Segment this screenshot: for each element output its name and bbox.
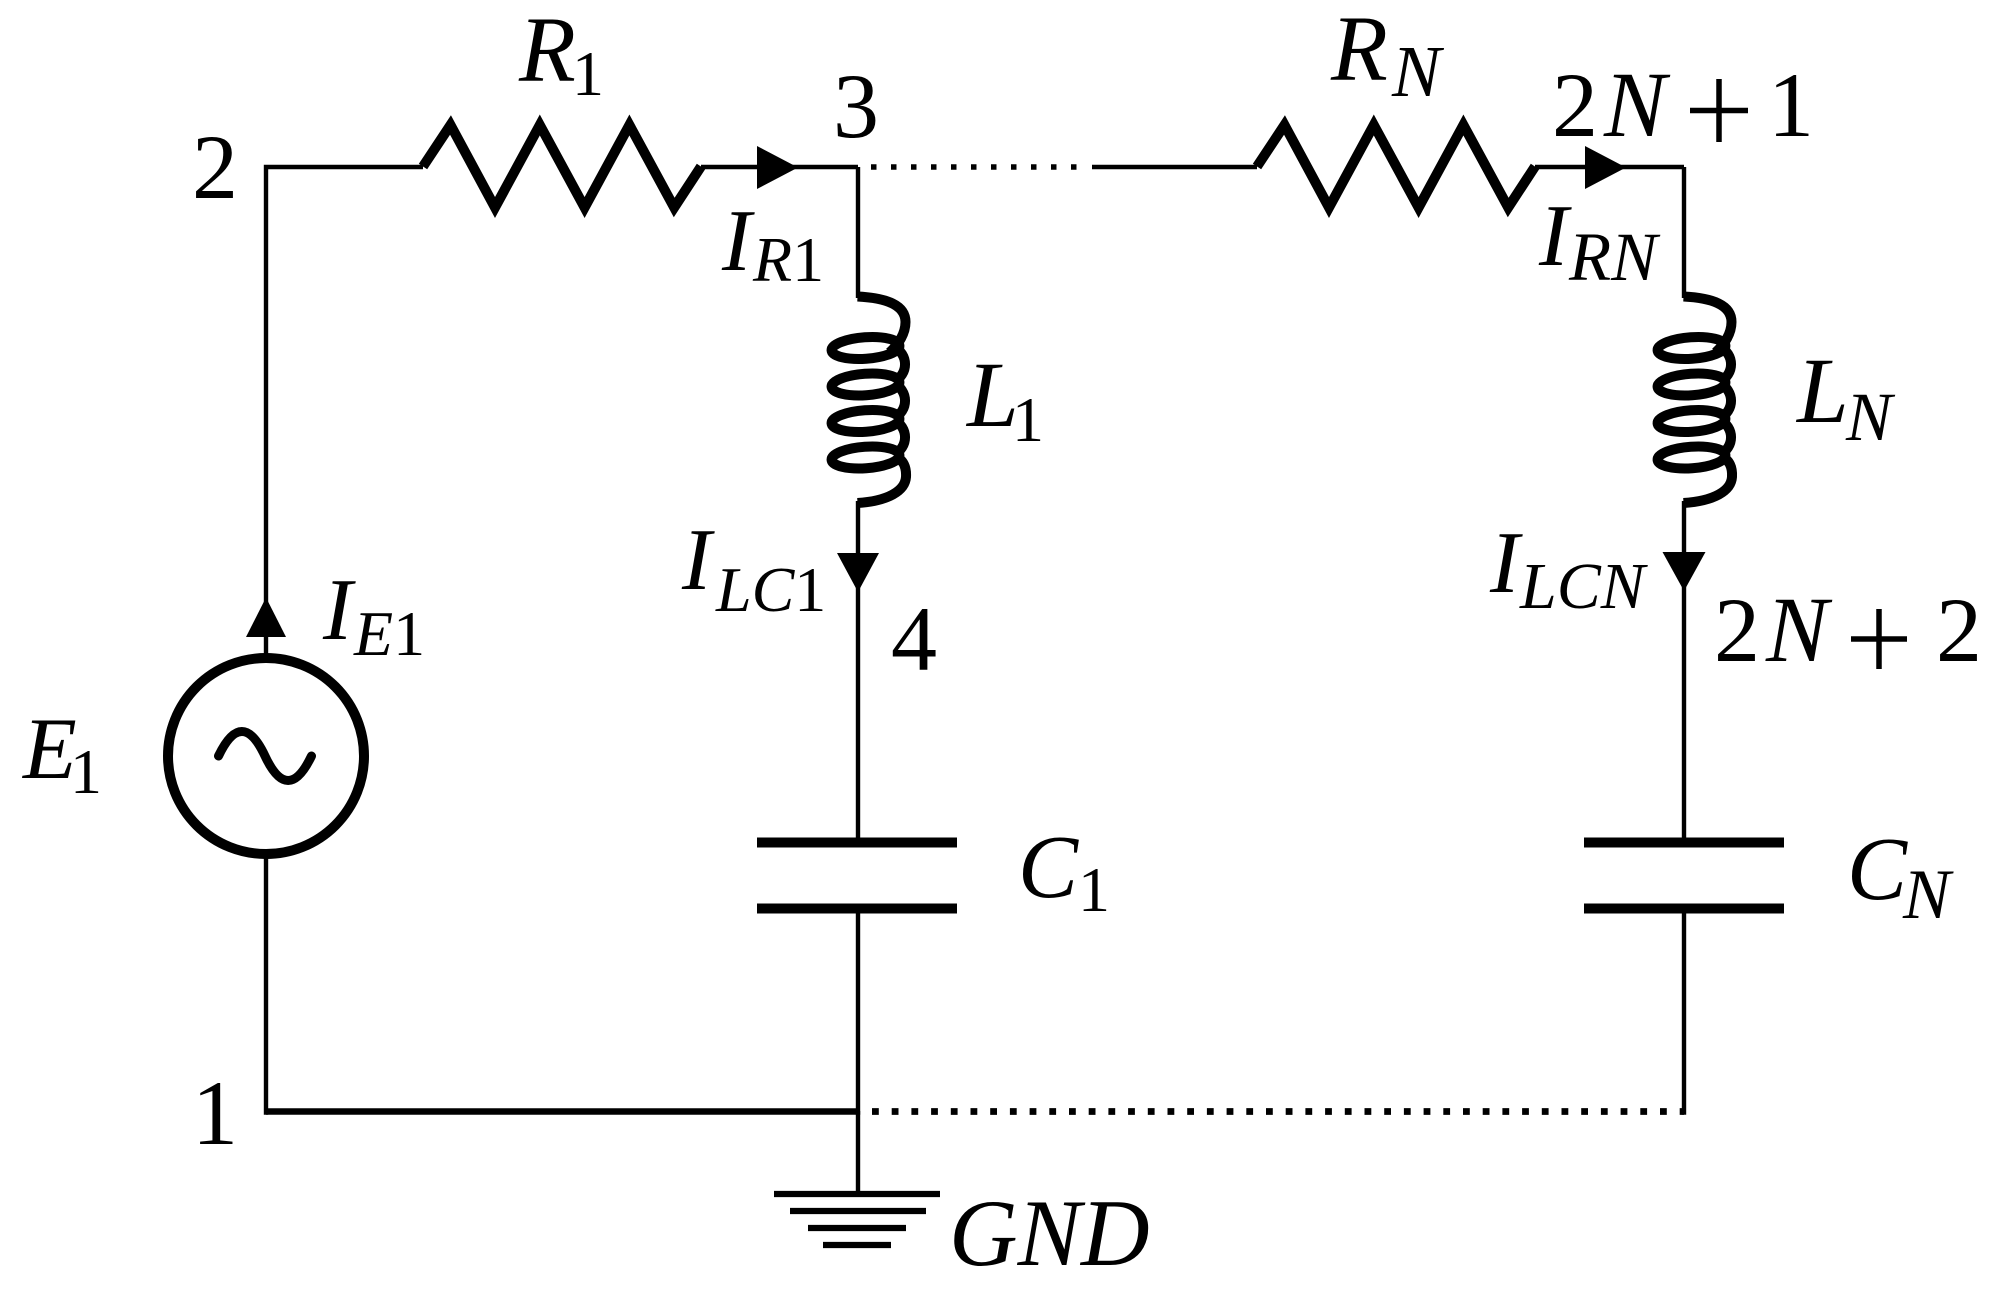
svg-text:E: E bbox=[21, 701, 77, 798]
svg-text:3: 3 bbox=[833, 55, 879, 157]
current arrow IE1 bbox=[246, 598, 286, 638]
wire node 3 down to inductor L1 bbox=[856, 167, 860, 298]
plus sign of 2N+1 bbox=[1690, 79, 1748, 142]
svg-text:N: N bbox=[1391, 31, 1445, 112]
svg-text:I: I bbox=[322, 562, 356, 659]
wire resistor RN to node 2N+1 bbox=[1535, 165, 1684, 169]
ground stem bbox=[856, 1111, 860, 1191]
wire from node 2 corner: top-left horizontal and left vertical bbox=[266, 167, 423, 656]
current arrow ILCN bbox=[1663, 552, 1706, 591]
svg-text:GND: GND bbox=[949, 1180, 1150, 1286]
svg-text:LC1: LC1 bbox=[715, 554, 826, 625]
resistor RN bbox=[1257, 125, 1535, 208]
svg-text:1: 1 bbox=[1078, 854, 1110, 925]
svg-text:I: I bbox=[1538, 188, 1572, 285]
svg-text:R: R bbox=[1330, 0, 1388, 101]
svg-text:L: L bbox=[965, 344, 1019, 447]
wire inductor LN to capacitor CN bbox=[1682, 501, 1686, 838]
svg-text:1: 1 bbox=[1012, 384, 1044, 455]
svg-text:2: 2 bbox=[1936, 579, 1982, 681]
svg-text:1: 1 bbox=[1768, 54, 1814, 156]
svg-text:C: C bbox=[1018, 818, 1079, 917]
svg-text:N: N bbox=[1902, 856, 1954, 934]
wire node 2N+1 down to inductor LN bbox=[1682, 167, 1686, 298]
bottom dotted rail bbox=[872, 1108, 1684, 1115]
capacitor CN bbox=[1584, 843, 1784, 909]
wire capacitor CN to bottom rail bbox=[1682, 914, 1686, 1115]
svg-text:LCN: LCN bbox=[1519, 550, 1649, 623]
current arrow IRN bbox=[1585, 146, 1626, 189]
svg-text:1: 1 bbox=[572, 38, 604, 109]
ground symbol bbox=[774, 1194, 940, 1245]
wire top dotted to resistor RN bbox=[1092, 165, 1257, 169]
svg-text:I: I bbox=[721, 193, 755, 290]
svg-text:4: 4 bbox=[891, 588, 937, 690]
wire resistor R1 to node 3 bbox=[701, 165, 858, 169]
svg-text:E1: E1 bbox=[353, 598, 425, 669]
bottom rail wire node 1 to ground junction bbox=[266, 1108, 858, 1115]
dotted continuation wire top bbox=[871, 164, 1080, 170]
svg-text:N: N bbox=[1603, 54, 1671, 157]
source E1 circle bbox=[168, 658, 364, 854]
svg-text:RN: RN bbox=[1568, 219, 1661, 295]
svg-text:N: N bbox=[1765, 579, 1833, 682]
current arrow IR1 bbox=[757, 146, 798, 189]
svg-text:I: I bbox=[681, 512, 715, 609]
svg-text:2: 2 bbox=[1552, 54, 1598, 156]
svg-text:2: 2 bbox=[1714, 579, 1760, 681]
capacitor C1 bbox=[757, 843, 957, 909]
current arrow ILC1 bbox=[837, 553, 879, 592]
svg-text:I: I bbox=[1489, 515, 1523, 612]
wire source E1 to bottom rail bbox=[264, 858, 268, 1115]
resistor R1 bbox=[423, 125, 701, 208]
svg-text:C: C bbox=[1847, 820, 1908, 919]
svg-text:R: R bbox=[518, 0, 576, 102]
svg-text:2: 2 bbox=[192, 116, 238, 218]
plus sign of 2N+2 bbox=[1851, 609, 1907, 669]
wire capacitor C1 to bottom rail bbox=[856, 914, 860, 1115]
inductor L1 bbox=[831, 297, 906, 504]
svg-text:L: L bbox=[1795, 340, 1849, 443]
svg-text:R1: R1 bbox=[752, 224, 824, 295]
wire inductor L1 to capacitor C1 bbox=[856, 501, 860, 838]
svg-text:1: 1 bbox=[70, 736, 102, 807]
svg-text:1: 1 bbox=[192, 1062, 238, 1164]
sine wave inside source E1 bbox=[219, 732, 312, 781]
inductor LN bbox=[1657, 297, 1732, 504]
svg-text:N: N bbox=[1845, 379, 1896, 455]
